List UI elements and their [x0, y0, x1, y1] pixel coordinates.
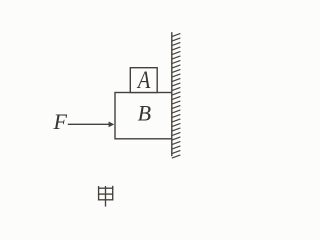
svg-text:A: A [136, 67, 151, 94]
force arrow [68, 122, 114, 128]
block A [130, 68, 157, 93]
wall line [171, 32, 173, 156]
svg-text:F: F [52, 109, 67, 134]
wall hatching [172, 33, 181, 158]
block B [115, 93, 172, 139]
caption 甲 (drawn with strokes) [98, 186, 114, 207]
svg-text:B: B [138, 100, 151, 125]
